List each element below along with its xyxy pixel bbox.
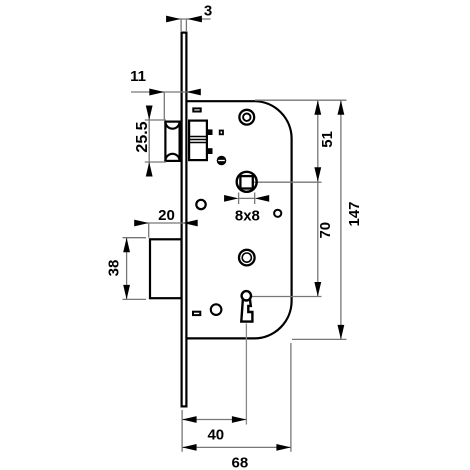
svg-text:51: 51 bbox=[319, 131, 336, 148]
extension line hub center bbox=[247, 181, 322, 183]
follower hub circle bbox=[237, 172, 257, 192]
latch tab lower bbox=[208, 148, 213, 154]
dimension 8x8 (spindle square) bbox=[224, 193, 269, 225]
dimension 25.5 (latch height) bbox=[134, 106, 166, 177]
grommet double ring bbox=[239, 250, 255, 266]
svg-text:25.5: 25.5 bbox=[134, 121, 151, 152]
svg-text:68: 68 bbox=[232, 455, 249, 470]
dimension 20 (deadbolt width) bbox=[134, 207, 198, 238]
top fixing screw hole bbox=[239, 110, 254, 125]
latch bolt head bbox=[165, 122, 179, 161]
faceplate bbox=[182, 33, 187, 407]
dimension 70 (hub to keyhole) bbox=[314, 222, 334, 297]
lock body case outline bbox=[187, 101, 292, 338]
extension line body bottom (147) bbox=[292, 338, 347, 340]
circle left of keyhole bbox=[211, 304, 222, 315]
svg-text:11: 11 bbox=[130, 68, 146, 85]
screw with slot bbox=[217, 156, 227, 166]
svg-text:38: 38 bbox=[106, 260, 123, 277]
deadbolt bbox=[150, 239, 182, 298]
dimension 51 (top to hub) bbox=[314, 100, 335, 296]
small square hole bbox=[220, 131, 223, 135]
extension line top (51/147) bbox=[255, 99, 347, 101]
extension line keyhole center bbox=[252, 296, 322, 298]
8x8 square spindle hole bbox=[240, 176, 252, 188]
svg-text:8x8: 8x8 bbox=[235, 207, 260, 224]
latch bolt body inside case bbox=[189, 121, 207, 161]
dimension 11 (latch projection) bbox=[130, 68, 201, 120]
dimension 68 (case depth) bbox=[182, 343, 291, 470]
small rect near keyhole bbox=[193, 312, 200, 315]
svg-text:20: 20 bbox=[158, 207, 175, 224]
latch spring lines bbox=[188, 137, 208, 143]
small circle right of hub bbox=[274, 210, 281, 217]
dimension 147 (case height) bbox=[338, 100, 364, 339]
dimension 40 (backset) bbox=[182, 324, 246, 452]
svg-text:70: 70 bbox=[317, 222, 334, 239]
stop-works slider rectangle bbox=[193, 108, 200, 111]
dimension 3 (faceplate thickness) bbox=[166, 3, 212, 32]
svg-text:147: 147 bbox=[346, 201, 363, 226]
keyhole bbox=[241, 291, 252, 322]
small circle below latch bbox=[196, 200, 205, 209]
latch tab upper bbox=[208, 129, 213, 135]
svg-text:3: 3 bbox=[204, 3, 212, 20]
svg-text:40: 40 bbox=[207, 427, 224, 444]
dimension 38 (deadbolt height) bbox=[106, 238, 147, 300]
